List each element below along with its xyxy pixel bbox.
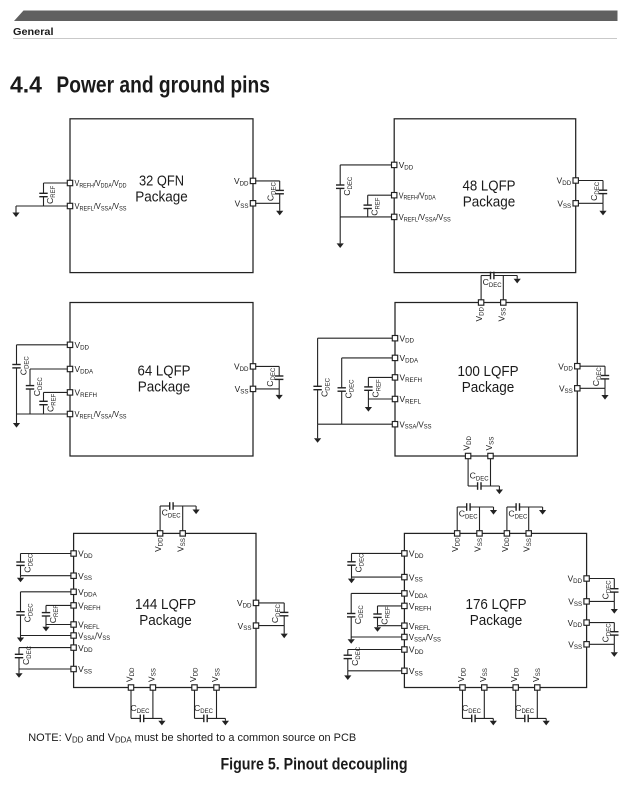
svg-text:VDD​: VDD​	[234, 176, 249, 187]
svg-text:CDEC​: CDEC​	[265, 367, 277, 387]
svg-text:CDEC​: CDEC​	[508, 509, 528, 521]
svg-text:VSS​: VSS​	[176, 538, 187, 552]
svg-text:CDEC​: CDEC​	[342, 176, 354, 196]
svg-text:VSS​: VSS​	[557, 199, 571, 210]
svg-text:CREF​: CREF​	[45, 185, 57, 204]
svg-text:CREF​: CREF​	[46, 393, 58, 412]
svg-text:NOTE: VDD​ and VDDA​ must be s: NOTE: VDD​ and VDDA​ must be shorted to …	[28, 732, 356, 744]
svg-text:VREFH​: VREFH​	[78, 601, 100, 612]
svg-text:VSS​: VSS​	[478, 668, 489, 682]
svg-text:VDD​: VDD​	[78, 549, 93, 560]
svg-text:CDEC​: CDEC​	[589, 181, 601, 201]
svg-text:VSS​: VSS​	[484, 437, 495, 451]
svg-text:VSS​: VSS​	[78, 664, 92, 675]
svg-text:VREFH​/VDDA​/VDD​: VREFH​/VDDA​/VDD​	[75, 178, 127, 189]
svg-text:CDEC​: CDEC​	[483, 277, 503, 289]
svg-text:CDEC​: CDEC​	[353, 605, 365, 625]
svg-text:VDD​: VDD​	[78, 643, 93, 654]
svg-text:VDDA​: VDDA​	[78, 587, 98, 598]
svg-text:100 LQFP: 100 LQFP	[458, 364, 519, 380]
svg-text:VSS​: VSS​	[531, 668, 542, 682]
svg-text:VDD​: VDD​	[474, 306, 485, 321]
svg-text:VREFL​/VSSA​/VSS​: VREFL​/VSSA​/VSS​	[399, 212, 451, 223]
svg-text:CDEC​: CDEC​	[23, 553, 35, 573]
svg-text:VDD​: VDD​	[500, 537, 511, 552]
svg-text:CDEC​: CDEC​	[459, 509, 479, 521]
svg-text:VSS​: VSS​	[235, 384, 249, 395]
svg-text:CDEC​: CDEC​	[162, 508, 182, 520]
svg-text:CDEC​: CDEC​	[600, 623, 612, 643]
svg-text:VREFH​: VREFH​	[75, 388, 97, 399]
svg-text:VSSA​/VSS​: VSSA​/VSS​	[400, 419, 432, 430]
svg-text:VREFH​/VDDA​: VREFH​/VDDA​	[399, 190, 437, 201]
svg-text:VDD​: VDD​	[234, 362, 249, 373]
svg-text:VDD​: VDD​	[188, 667, 199, 682]
svg-text:CDEC​: CDEC​	[32, 377, 44, 397]
svg-text:VDD​: VDD​	[462, 435, 473, 450]
svg-text:VDD​: VDD​	[450, 537, 461, 552]
svg-text:Package: Package	[135, 189, 188, 205]
svg-text:Power and ground pins: Power and ground pins	[56, 72, 270, 98]
svg-text:Figure 5. Pinout decoupling: Figure 5. Pinout decoupling	[221, 756, 408, 774]
svg-text:176 LQFP: 176 LQFP	[466, 597, 527, 613]
svg-text:CDEC​: CDEC​	[354, 553, 366, 573]
svg-text:64 LQFP: 64 LQFP	[138, 363, 191, 379]
svg-text:VSS​: VSS​	[146, 668, 157, 682]
svg-text:VSSA​/VSS​: VSSA​/VSS​	[78, 631, 110, 642]
svg-text:VSS​: VSS​	[409, 572, 423, 583]
svg-text:CDEC​: CDEC​	[470, 471, 490, 483]
svg-text:VREFL​: VREFL​	[409, 621, 431, 632]
svg-text:VDD​: VDD​	[153, 537, 164, 552]
svg-text:General: General	[13, 26, 54, 38]
svg-text:Package: Package	[463, 195, 516, 211]
svg-text:CREF​: CREF​	[48, 605, 60, 624]
svg-text:CREF​: CREF​	[369, 197, 381, 216]
svg-text:CREF​: CREF​	[380, 606, 392, 625]
svg-text:CDEC​: CDEC​	[320, 377, 332, 397]
svg-text:VDD​: VDD​	[237, 598, 252, 609]
svg-text:48 LQFP: 48 LQFP	[463, 179, 516, 195]
svg-text:CDEC​: CDEC​	[270, 603, 282, 623]
svg-text:VSS​: VSS​	[210, 668, 221, 682]
svg-text:VDDA​: VDDA​	[409, 589, 429, 600]
svg-text:4.4: 4.4	[10, 72, 42, 98]
svg-text:VSS​: VSS​	[496, 308, 507, 322]
svg-text:VDD​: VDD​	[75, 340, 90, 351]
svg-text:VSS​: VSS​	[559, 384, 573, 395]
svg-text:VSS​: VSS​	[522, 538, 533, 552]
svg-text:CREF​: CREF​	[370, 379, 382, 398]
svg-text:VSS​: VSS​	[473, 538, 484, 552]
svg-text:VREFH​: VREFH​	[409, 601, 431, 612]
svg-text:CDEC​: CDEC​	[344, 379, 356, 399]
svg-text:CDEC​: CDEC​	[19, 356, 31, 376]
svg-text:VREFL​: VREFL​	[400, 394, 422, 405]
svg-text:VSS​: VSS​	[409, 666, 423, 677]
svg-text:VDD​: VDD​	[400, 333, 415, 344]
svg-text:CDEC​: CDEC​	[21, 645, 33, 665]
svg-text:VDD​: VDD​	[399, 160, 414, 171]
svg-text:VDD​: VDD​	[409, 645, 424, 656]
svg-text:VREFL​: VREFL​	[78, 620, 100, 631]
svg-text:VDDA​: VDDA​	[75, 364, 95, 375]
svg-text:VREFL​/VSSA​/VSS​: VREFL​/VSSA​/VSS​	[75, 201, 127, 212]
svg-text:VSS​: VSS​	[568, 640, 582, 651]
svg-text:Package: Package	[470, 613, 523, 629]
svg-text:CDEC​: CDEC​	[591, 367, 603, 387]
svg-text:VREFL​/VSSA​/VSS​: VREFL​/VSSA​/VSS​	[75, 409, 127, 420]
svg-text:CDEC​: CDEC​	[462, 703, 482, 715]
svg-text:144 LQFP: 144 LQFP	[135, 597, 196, 613]
svg-text:32 QFN: 32 QFN	[139, 173, 184, 189]
svg-text:VREFH​: VREFH​	[400, 373, 422, 384]
svg-text:VDD​: VDD​	[409, 549, 424, 560]
svg-text:CDEC​: CDEC​	[600, 580, 612, 600]
svg-text:Package: Package	[139, 613, 192, 629]
svg-text:CDEC​: CDEC​	[194, 703, 214, 715]
svg-text:VDDA​: VDDA​	[400, 353, 420, 364]
svg-text:VDD​: VDD​	[125, 667, 136, 682]
svg-text:VDD​: VDD​	[558, 361, 573, 372]
svg-text:VSSA​/VSS​: VSSA​/VSS​	[409, 632, 441, 643]
svg-text:VDD​: VDD​	[456, 667, 467, 682]
svg-text:VDD​: VDD​	[568, 618, 583, 629]
svg-text:VDD​: VDD​	[557, 176, 572, 187]
svg-text:CDEC​: CDEC​	[131, 703, 151, 715]
svg-text:CDEC​: CDEC​	[23, 603, 35, 623]
svg-text:VSS​: VSS​	[238, 621, 252, 632]
svg-text:Package: Package	[138, 379, 191, 395]
svg-text:VDD​: VDD​	[568, 574, 583, 585]
svg-text:CDEC​: CDEC​	[266, 181, 278, 201]
svg-text:Package: Package	[462, 380, 515, 396]
svg-text:VSS​: VSS​	[568, 597, 582, 608]
svg-text:VSS​: VSS​	[235, 199, 249, 210]
svg-text:CDEC​: CDEC​	[515, 703, 535, 715]
svg-text:VSS​: VSS​	[78, 571, 92, 582]
svg-text:VDD​: VDD​	[509, 667, 520, 682]
